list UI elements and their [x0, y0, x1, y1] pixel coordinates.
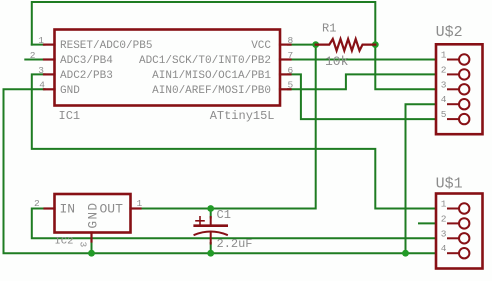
svg-text:3: 3: [78, 242, 89, 248]
wire IC1 pin5 to U$2 pin2: [288, 74, 436, 89]
svg-text:AIN1/MISO/OC1A/PB1: AIN1/MISO/OC1A/PB1: [152, 70, 271, 82]
svg-text:OUT: OUT: [100, 202, 124, 217]
wire U$2 pin4 to GND bus: [406, 104, 437, 253]
wire IC1 pin7 to U$2 pin1: [288, 59, 436, 61]
svg-text:1: 1: [441, 50, 447, 61]
wire U$1 pin2 dangler: [419, 222, 436, 224]
junction node R1 right: [372, 41, 379, 48]
regulator IC2 pin stubs: [45, 209, 141, 242]
svg-text:C1: C1: [217, 208, 231, 222]
connector U$2 pin stubs and circles: [448, 54, 469, 124]
svg-text:3: 3: [38, 65, 44, 76]
svg-text:IN: IN: [60, 202, 76, 217]
svg-text:IC2: IC2: [55, 236, 74, 248]
svg-text:IC1: IC1: [59, 109, 81, 123]
wire IC1 pin1 stub lead: [32, 44, 45, 46]
junction node C1 top / VCC: [207, 205, 214, 212]
svg-text:RESET/ADC0/PB5: RESET/ADC0/PB5: [60, 40, 152, 52]
wire regulator GND to bus: [91, 241, 93, 253]
capacitor C1 pin leads: [210, 217, 212, 225]
IC1 left pin stubs 1-4: [44, 45, 55, 90]
svg-text:ADC2/PB3: ADC2/PB3: [60, 70, 113, 82]
svg-text:7: 7: [288, 50, 294, 61]
svg-text:1: 1: [441, 199, 447, 210]
capacitor C1 plus sign: [196, 217, 204, 225]
svg-text:2: 2: [441, 213, 447, 224]
wire regulator IN to U$1 pin3: [32, 209, 436, 239]
U$2 pin numbers: [441, 50, 447, 121]
svg-text:U$2: U$2: [436, 24, 463, 41]
junction node regulator GND / bus: [88, 250, 95, 257]
svg-text:1: 1: [137, 198, 143, 209]
junction node U$2 pin4 leg / bus: [402, 250, 409, 257]
svg-text:2: 2: [441, 64, 447, 75]
IC1 pin name labels left column: [60, 40, 152, 97]
IC1 pin name labels right column: [139, 40, 271, 97]
capacitor C1 top plate: [195, 224, 227, 227]
svg-text:U$1: U$1: [436, 175, 463, 192]
svg-text:5: 5: [441, 109, 447, 120]
svg-text:ADC3/PB4: ADC3/PB4: [60, 55, 113, 67]
svg-text:VCC: VCC: [251, 40, 271, 52]
svg-text:AIN0/AREF/MOSI/PB0: AIN0/AREF/MOSI/PB0: [152, 85, 271, 97]
regulator IC2 body: [55, 194, 131, 233]
svg-text:4: 4: [441, 243, 447, 254]
svg-text:2: 2: [34, 198, 40, 209]
svg-text:1: 1: [38, 35, 44, 46]
wire IC1 pin6 to U$2 pin5: [288, 74, 436, 119]
svg-text:4: 4: [441, 94, 447, 105]
connector U$1 pin stubs and circles: [448, 203, 469, 258]
connector U$2 body: [436, 44, 483, 134]
op IC1 body ATtiny15L: [55, 30, 281, 106]
svg-text:6: 6: [288, 65, 294, 76]
wire C1 bottom lead: [210, 243, 212, 253]
wire C1 top lead: [210, 209, 212, 218]
svg-text:5: 5: [288, 80, 294, 91]
svg-text:ADC1/SCK/T0/INT0/PB2: ADC1/SCK/T0/INT0/PB2: [139, 55, 271, 67]
wire GND bus IC1 pin4 to U$1 pin4: [4, 89, 437, 253]
wire VCC net: pin8 to R1 left, riser down to regulator OUT: [141, 45, 316, 209]
svg-text:2.2uF: 2.2uF: [217, 237, 253, 251]
junction node C1 bottom / bus: [207, 250, 214, 257]
wire R1 right to U$2 pin3: [375, 45, 436, 90]
svg-text:GND: GND: [87, 201, 101, 228]
svg-text:3: 3: [441, 228, 447, 239]
svg-text:4: 4: [39, 80, 45, 91]
junction node R1 left / VCC: [312, 41, 319, 48]
wire VCC top rail from R1 right to IC1 pin1: [32, 2, 376, 45]
U$1 pin numbers: [441, 199, 447, 255]
svg-text:2: 2: [30, 50, 36, 61]
capacitor C1 curved bottom plate: [195, 232, 227, 235]
svg-text:R1: R1: [322, 22, 336, 36]
svg-text:GND: GND: [60, 85, 80, 97]
wire IC1 pin3 to U$1 pin1: [32, 74, 436, 208]
svg-text:10k: 10k: [325, 54, 349, 69]
IC1 right pin stubs 8,7,6,5: [280, 45, 291, 90]
svg-text:8: 8: [288, 35, 294, 46]
resistor R1 zigzag: [316, 39, 376, 51]
connector U$1 body: [436, 194, 483, 269]
svg-text:ATtiny15L: ATtiny15L: [210, 109, 275, 123]
IC1 pin numbers left: [30, 35, 46, 91]
IC1 pin numbers right: [288, 35, 294, 91]
wire IC1 pin2 dangler: [25, 59, 44, 61]
svg-text:3: 3: [441, 79, 447, 90]
